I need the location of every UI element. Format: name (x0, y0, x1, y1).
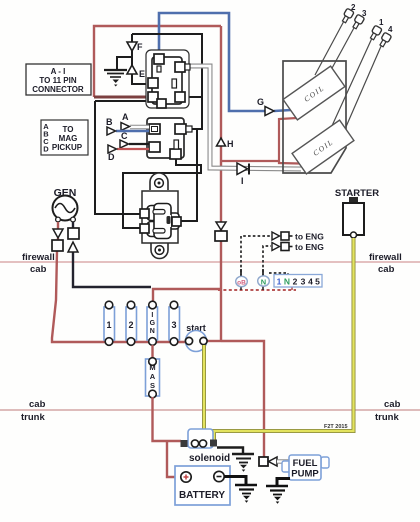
svg-text:F: F (137, 42, 143, 52)
firewall cab label left (22, 252, 55, 275)
HEI module pin 2 (140, 224, 149, 233)
cab trunk label right (375, 399, 401, 423)
wire black module2 bottom pin to HEI pin2 (123, 158, 201, 228)
wire black fuel pump to ground (277, 479, 290, 486)
HEI module right pin (172, 217, 181, 226)
connector to ENG 1 (272, 232, 324, 242)
svg-text:cab: cab (378, 264, 395, 275)
wire white connector to fuel pump (277, 459, 290, 463)
fuse IGN (147, 301, 158, 345)
indicator stub oB (240, 269, 242, 290)
connector E (127, 65, 145, 79)
svg-text:5: 5 (315, 277, 320, 287)
ground fuel pump (266, 486, 288, 504)
spark plug wire 2 (315, 20, 345, 75)
svg-text:TO 11 PIN: TO 11 PIN (39, 76, 76, 85)
svg-text:BATTERY: BATTERY (179, 490, 225, 501)
spark plug boot 3 (351, 14, 365, 30)
svg-text:cab: cab (30, 264, 47, 275)
svg-text:3: 3 (362, 9, 367, 18)
svg-text:3: 3 (171, 320, 176, 330)
svg-text:firewall: firewall (22, 252, 55, 263)
module U1 top pin (154, 54, 164, 72)
F2T 2015 note (324, 424, 348, 430)
svg-text:1: 1 (277, 277, 282, 287)
module U2 right pin (175, 124, 192, 134)
connector I (237, 163, 249, 186)
starter (335, 188, 379, 238)
wire yellow start to solenoid (202, 345, 206, 440)
GEN black connector triangle (68, 242, 78, 252)
wire black connector C to module U2 (129, 143, 149, 145)
shift indicator box 1N2345 (274, 275, 322, 288)
svg-text:D: D (108, 152, 115, 162)
wire red bus to IGN fuse (153, 289, 221, 302)
svg-text:2: 2 (351, 3, 356, 12)
connector to ENG 2 (272, 242, 324, 252)
wire black E F chain (132, 34, 149, 84)
svg-text:H: H (227, 139, 234, 149)
ground top (module ground) (104, 70, 127, 87)
cab trunk label left (21, 399, 46, 423)
fuse 1 (104, 301, 115, 345)
svg-text:MAG: MAG (59, 134, 78, 143)
svg-text:to ENG: to ENG (295, 242, 324, 252)
wire red drop to fuel pump connector (221, 341, 264, 457)
generator GEN (53, 187, 78, 222)
spark plug boot 2 (341, 8, 355, 24)
spark plug boot 1 (369, 25, 383, 41)
plug label 2 (351, 3, 356, 12)
coil C1 (283, 66, 345, 120)
fuel pump feed connector square (259, 457, 268, 466)
svg-text:PICKUP: PICKUP (52, 143, 83, 152)
svg-text:firewall: firewall (369, 252, 402, 263)
module U1 bottom pin (157, 99, 166, 108)
wire blue connector B to module U2 (116, 130, 149, 132)
connector F (127, 38, 143, 52)
module U2 left-bottom pin (149, 142, 160, 152)
svg-text:CONNECTOR: CONNECTOR (32, 85, 84, 94)
indicator N (258, 276, 270, 287)
ground solenoid (232, 454, 254, 472)
spark plug wire 4 (342, 44, 382, 136)
svg-text:1: 1 (379, 18, 384, 27)
svg-text:4: 4 (388, 25, 393, 34)
connector B (106, 117, 116, 135)
svg-text:start: start (186, 323, 206, 333)
wire red bus corner to start switch (207, 340, 221, 342)
svg-text:B: B (106, 117, 113, 127)
coil enclosure box (283, 61, 346, 173)
fuse 3 (169, 301, 180, 345)
wire red supply loop top (94, 26, 221, 97)
svg-text:D: D (43, 145, 49, 154)
svg-text:2: 2 (128, 320, 133, 330)
svg-text:trunk: trunk (375, 412, 399, 423)
start switch (185, 323, 207, 352)
wire red MAS to solenoid and battery (153, 397, 182, 477)
module U1 outer shell (146, 50, 189, 108)
GEN red connector square (52, 240, 63, 251)
svg-text:N: N (150, 328, 155, 335)
wire blue G to coil1 (274, 110, 291, 111)
svg-text:A: A (150, 372, 156, 381)
module U1 right-top pin (175, 62, 190, 72)
wire blue ignition feed (159, 13, 265, 111)
plug label 4 (388, 25, 393, 34)
fuel pump feed connector triangle (269, 457, 278, 466)
wire white module1 to diode I to coil2 (190, 66, 301, 169)
plug label 3 (362, 9, 367, 18)
svg-text:N: N (261, 278, 266, 287)
dashed link N to shift box (269, 273, 288, 275)
svg-text:G: G (150, 320, 156, 327)
red dashed bus under indicators (218, 289, 296, 291)
GEN black connector square (68, 228, 79, 239)
svg-text:PUMP: PUMP (291, 469, 319, 480)
firewall cab label right (369, 252, 402, 275)
fuel pump (282, 455, 329, 480)
svg-text:I: I (151, 312, 153, 319)
HEI module bottom mounting ear (151, 243, 168, 259)
module U2 bottom pin (170, 149, 181, 159)
dashed link oB to ENG (241, 236, 271, 277)
module U1 right-bottom pin (175, 92, 185, 102)
svg-text:I: I (241, 176, 244, 186)
label box A-I TO 11 PIN CONNECTOR (26, 64, 91, 95)
GEN red connector triangle (53, 229, 63, 238)
wire yellow starter to solenoid (214, 238, 354, 440)
spark plug boot 4 (378, 32, 392, 48)
module U2 body (147, 118, 184, 158)
HEI module pin 1 (140, 209, 149, 218)
cab/trunk boundary line (0, 409, 420, 411)
module U1 body (152, 57, 182, 104)
svg-text:trunk: trunk (21, 412, 45, 423)
wire red connector D to module U2 (117, 148, 149, 150)
connector C (120, 131, 129, 148)
coil C2 (292, 120, 354, 174)
wire red branch to coils (221, 118, 299, 164)
fuse 2 (126, 301, 137, 345)
plug label 1 (379, 18, 384, 27)
ground battery (235, 485, 257, 503)
wire red GEN output (52, 222, 185, 342)
wire black F loop to module2 right pin (132, 34, 202, 129)
module U1 inner slot (172, 79, 177, 88)
wire black module2 right pin to HEI right pin (180, 129, 197, 221)
svg-text:solenoid: solenoid (189, 453, 230, 464)
svg-text:2: 2 (293, 277, 298, 287)
wire white connector A to module U2 (130, 125, 149, 129)
module U2 inner slot (174, 140, 179, 149)
wire black battery negative to ground (224, 477, 246, 485)
module U1 left-bottom pin (148, 92, 158, 102)
svg-text:4: 4 (308, 277, 313, 287)
wire red main bus vertical (220, 26, 222, 341)
svg-text:TO: TO (63, 125, 74, 134)
wire red feed to module1 pin (94, 96, 149, 99)
svg-text:A: A (122, 112, 129, 122)
svg-text:cab: cab (384, 399, 401, 410)
svg-text:C: C (121, 131, 128, 141)
svg-text:1: 1 (106, 320, 111, 330)
fuse MAS (146, 345, 160, 398)
svg-text:E: E (139, 69, 145, 79)
label box TO MAG PICKUP (41, 120, 88, 155)
connector A (121, 112, 130, 131)
wire black module2 enclosure to HEI pin1 (95, 101, 158, 214)
wire black module1 right-bottom pin stub (185, 96, 202, 98)
inline connector on red bus (triangle and square) (215, 222, 227, 241)
wire black ground tap near E (117, 57, 132, 69)
HEI module connector face (147, 204, 179, 239)
module U2 left-top pin (149, 124, 160, 134)
svg-text:A - I: A - I (51, 67, 66, 76)
spark plug wire 1 (331, 37, 373, 128)
wire black GEN field (73, 222, 151, 287)
wire black solenoid to ground (217, 448, 243, 454)
connector G (257, 97, 274, 116)
svg-text:cab: cab (29, 399, 46, 410)
svg-text:G: G (257, 97, 264, 107)
HEI module body (142, 191, 178, 243)
svg-text:S: S (150, 381, 155, 390)
connector D (108, 145, 117, 162)
svg-text:N: N (284, 277, 290, 287)
svg-text:3: 3 (301, 277, 306, 287)
indicator stub N (262, 269, 264, 290)
HEI module top mounting ear (150, 173, 168, 190)
spark plug wire 3 (325, 26, 355, 81)
svg-text:F2T 2015: F2T 2015 (324, 424, 348, 430)
svg-text:FUEL: FUEL (293, 458, 318, 469)
battery (175, 466, 230, 505)
solenoid (181, 429, 231, 464)
connector H on red bus (217, 138, 234, 149)
indicator stub shift box (291, 287, 293, 290)
firewall/cab boundary line (0, 261, 420, 263)
dashed link N to ENG (263, 246, 271, 277)
module U1 left-middle pin (148, 78, 158, 88)
svg-text:oB: oB (237, 280, 246, 287)
indicator oB (236, 276, 248, 286)
svg-text:to ENG: to ENG (295, 232, 324, 242)
